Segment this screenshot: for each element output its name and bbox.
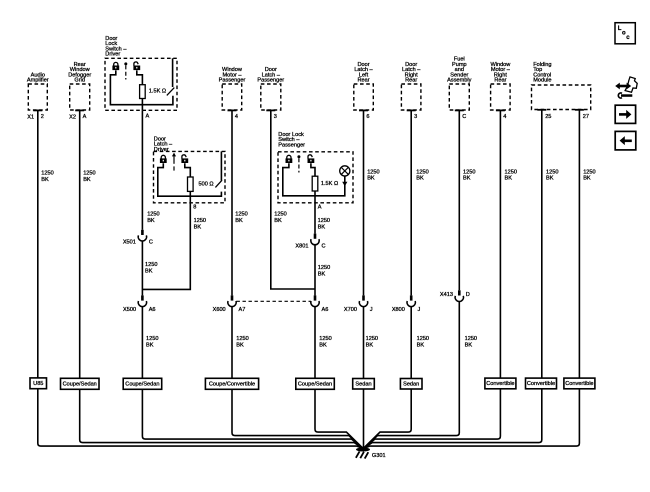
wire label 1250 BK #9 [147, 211, 159, 223]
svg-text:3: 3 [274, 114, 277, 120]
svg-text:Coupe/Sedan: Coupe/Sedan [63, 382, 97, 388]
label box Convertible w11 [564, 378, 595, 389]
wire label 1250 BK #11 [274, 211, 286, 223]
svg-text:1250: 1250 [235, 211, 247, 217]
svg-text:1250: 1250 [465, 336, 477, 342]
svg-text:1250: 1250 [274, 211, 286, 217]
svg-text:X600: X600 [213, 307, 226, 313]
svg-text:1250: 1250 [194, 218, 206, 224]
switch blade door latch driver [215, 151, 222, 187]
wire: window motor passenger down to X600 [231, 110, 233, 295]
wire label 1250 BK #15 [318, 265, 330, 277]
door latch driver box [154, 136, 226, 210]
svg-text:BK: BK [145, 268, 153, 274]
service info arrow-wrench icon [615, 77, 637, 98]
svg-text:1250: 1250 [41, 171, 53, 177]
wire label 1250 BK #12 [194, 218, 206, 230]
connector: audio amplifier [27, 72, 49, 120]
svg-text:1250: 1250 [145, 262, 157, 268]
wire label 1250 BK #1 [41, 171, 53, 183]
wire label 1250 BK #5 [463, 169, 475, 181]
wire label 1250 BK #6 [505, 169, 517, 181]
svg-text:C: C [462, 114, 466, 120]
connector: rear window defogger grid [68, 62, 91, 121]
svg-text:A6: A6 [149, 307, 156, 313]
svg-text:BK: BK [465, 342, 473, 348]
wire label 1250 BK #18 [319, 336, 331, 348]
wire: X600 to Coupe/Convertible to ground [232, 307, 363, 449]
label box Convertible w9 [485, 378, 516, 389]
svg-text:J: J [418, 307, 421, 313]
svg-text:C: C [322, 243, 326, 249]
ground G301 [356, 448, 386, 459]
svg-text:1250: 1250 [146, 336, 158, 342]
svg-text:A: A [83, 114, 87, 120]
actuator dot dashed driver switch [124, 62, 127, 79]
svg-text:BK: BK [546, 176, 554, 182]
wire: X801 to A6 splice [314, 245, 316, 296]
dashed tie line X600 to A6 [237, 300, 311, 302]
wire: door latch passenger branch to junction [271, 110, 315, 289]
wire label 1250 BK #10 [235, 211, 247, 223]
wire: X700 to Sedan to ground [362, 307, 364, 449]
door lock switch passenger box [278, 132, 353, 211]
wire label 1250 BK #17 [236, 336, 248, 348]
svg-text:BK: BK [194, 224, 202, 230]
wire label 1250 BK #13 [318, 218, 330, 230]
lock icon closed door latch driver [160, 155, 167, 163]
svg-text:BK: BK [366, 342, 374, 348]
svg-text:1250: 1250 [546, 169, 558, 175]
wire label 1250 BK #7 [546, 169, 558, 181]
lock icon open door latch driver [181, 155, 188, 163]
svg-text:BK: BK [146, 342, 154, 348]
connector splice X501 pin C [123, 230, 153, 246]
svg-text:X2: X2 [69, 115, 76, 121]
connector splice X500 pin A6 [123, 295, 156, 313]
lock icon open driver switch [133, 62, 140, 70]
svg-text:c: c [626, 35, 630, 41]
svg-text:Coupe/Sedan: Coupe/Sedan [125, 382, 159, 388]
label box Coupe/Sedan w3 [123, 378, 162, 389]
wire: X501 to X500 junction [141, 241, 143, 295]
svg-text:1250: 1250 [463, 169, 475, 175]
wire: window motor right rear to Convertible to ground [363, 110, 500, 448]
svg-text:1250: 1250 [319, 336, 331, 342]
svg-text:Module: Module [533, 78, 551, 84]
svg-text:BK: BK [416, 176, 424, 182]
connector splice X700 pin J [344, 295, 373, 313]
wire: folding top module pin 27 to Convertible to ground [363, 110, 579, 448]
wire: door latch left rear down to X700 [363, 110, 365, 295]
connector splice X413 pin D [440, 290, 470, 301]
svg-text:1250: 1250 [236, 336, 248, 342]
svg-text:Sedan: Sedan [403, 382, 419, 388]
svg-text:6: 6 [366, 114, 369, 120]
svg-text:BK: BK [274, 218, 282, 224]
wire: A6 to Coupe/Sedan to ground [315, 307, 363, 449]
svg-text:500 Ω: 500 Ω [199, 182, 214, 188]
svg-text:1250: 1250 [416, 169, 428, 175]
svg-text:1250: 1250 [318, 265, 330, 271]
connector: door latch passenger pin 3 [257, 67, 284, 120]
svg-text:Amplifier: Amplifier [27, 78, 49, 84]
wire label 1250 BK #4 [416, 169, 428, 181]
svg-text:3: 3 [414, 114, 417, 120]
wire: X800 to Sedan to ground [363, 307, 411, 449]
connector splice A6 passenger [311, 295, 329, 313]
svg-text:G301: G301 [372, 453, 386, 459]
svg-text:1250: 1250 [417, 336, 429, 342]
wire label 1250 BK #3 [367, 169, 379, 181]
label box Coupe/Sedan w2 [61, 378, 100, 389]
svg-text:A: A [318, 205, 322, 211]
indicator lamp passenger switch [340, 166, 350, 186]
svg-text:Passenger: Passenger [257, 78, 284, 84]
right arrow button [615, 105, 635, 123]
svg-text:1.5K Ω: 1.5K Ω [149, 89, 166, 95]
wire: door latch driver branch to junction [142, 203, 190, 290]
svg-text:Passenger: Passenger [278, 143, 305, 149]
svg-text:Passenger: Passenger [219, 78, 246, 84]
wire: folding top module pin 25 to Convertible to ground [363, 110, 542, 448]
svg-text:BK: BK [583, 176, 591, 182]
svg-text:1250: 1250 [583, 169, 595, 175]
label box Convertible w10 [526, 378, 557, 389]
svg-text:BK: BK [417, 342, 425, 348]
svg-text:X800: X800 [392, 307, 405, 313]
wire label 1250 BK #21 [465, 336, 477, 348]
wire: audio amplifier to U85 to ground [38, 110, 363, 448]
lock icon closed passenger switch [286, 155, 293, 163]
wire: X500 to Coupe/Sedan to ground [142, 307, 363, 449]
wire label 1250 BK #20 [417, 336, 429, 348]
switch blade driver [167, 58, 175, 95]
svg-text:U85: U85 [33, 381, 43, 387]
wiring inside passenger switch box [283, 163, 345, 196]
connector: window motor passenger pin 4 [219, 67, 246, 120]
wire: rear window defogger to ground [80, 110, 364, 448]
svg-text:Driver: Driver [154, 147, 169, 153]
label box Sedan w7 [400, 379, 422, 390]
svg-text:1250: 1250 [147, 211, 159, 217]
svg-text:X700: X700 [344, 307, 357, 313]
lock icon closed driver switch [112, 62, 119, 70]
svg-text:27: 27 [583, 114, 589, 120]
svg-text:BK: BK [319, 342, 327, 348]
wire: door lock switch driver pin A down to X501 [141, 110, 143, 230]
svg-text:X501: X501 [123, 239, 136, 245]
svg-text:1250: 1250 [318, 218, 330, 224]
svg-text:A6: A6 [322, 307, 329, 313]
wire: fuel pump sender down to X413 [458, 110, 460, 290]
resistor 1.5K driver switch [137, 70, 166, 110]
svg-text:25: 25 [545, 114, 551, 120]
resistor 1.5K passenger switch [311, 163, 338, 203]
svg-text:BK: BK [505, 176, 513, 182]
svg-text:A: A [146, 114, 150, 120]
svg-text:BK: BK [236, 342, 244, 348]
svg-text:BK: BK [318, 271, 326, 277]
label box Coupe/Convertible [205, 378, 258, 389]
wire label 1250 BK #14 [145, 262, 157, 274]
wire label 1250 BK #16 [146, 336, 158, 348]
svg-text:Rear: Rear [357, 78, 369, 84]
svg-text:Rear: Rear [494, 78, 506, 84]
svg-text:C: C [149, 239, 153, 245]
svg-text:J: J [370, 307, 373, 313]
LOC reference badge [615, 23, 635, 44]
svg-text:X413: X413 [440, 292, 453, 298]
connector: door latch left rear pin 6 [354, 62, 374, 120]
svg-text:BK: BK [463, 176, 471, 182]
wire label 1250 BK #2 [83, 171, 95, 183]
svg-text:1250: 1250 [367, 169, 379, 175]
svg-text:BK: BK [147, 218, 155, 224]
wire: door lock switch passenger pin A down to X801 [314, 203, 316, 234]
svg-text:X801: X801 [295, 243, 308, 249]
svg-text:A7: A7 [239, 307, 246, 313]
svg-text:Coupe/Convertible: Coupe/Convertible [209, 382, 255, 388]
connector: window motor right rear pin 4 [490, 62, 511, 120]
svg-text:BK: BK [367, 176, 375, 182]
svg-text:X1: X1 [27, 115, 34, 121]
svg-text:Convertible: Convertible [486, 381, 514, 387]
svg-text:Assembly: Assembly [447, 78, 471, 84]
svg-text:Rear: Rear [405, 78, 417, 84]
svg-text:Convertible: Convertible [527, 381, 555, 387]
wire label 1250 BK #8 [583, 169, 595, 181]
svg-text:4: 4 [503, 114, 506, 120]
connector splice X600 pin A7 [213, 295, 246, 313]
actuator dot dashed passenger switch [297, 155, 300, 172]
svg-text:BK: BK [83, 177, 91, 183]
wire: X413 to ground [363, 302, 459, 449]
lock icon open passenger switch [308, 155, 315, 163]
svg-text:X500: X500 [123, 307, 136, 313]
wiring inside driver switch box [110, 70, 172, 104]
svg-text:1250: 1250 [505, 169, 517, 175]
svg-text:BK: BK [318, 224, 326, 230]
svg-text:Coupe/Sedan: Coupe/Sedan [298, 382, 332, 388]
svg-text:1.5K Ω: 1.5K Ω [321, 181, 338, 187]
actuator up arrow door latch driver [172, 153, 176, 171]
connector splice X801 pin C [295, 234, 325, 250]
label box U85 [30, 378, 47, 389]
label box Sedan w6 [353, 379, 375, 390]
wire label 1250 BK #19 [366, 336, 378, 348]
connector: door latch right rear pin 3 [401, 62, 421, 120]
svg-text:Sedan: Sedan [355, 382, 371, 388]
svg-text:8: 8 [193, 205, 196, 211]
svg-text:BK: BK [235, 218, 243, 224]
wire: door latch right rear down to X800 [410, 110, 412, 295]
wiring inside door latch driver box [158, 163, 222, 196]
svg-text:4: 4 [235, 114, 238, 120]
label box Coupe/Sedan w5 [296, 378, 335, 389]
svg-text:1250: 1250 [366, 336, 378, 342]
svg-text:1250: 1250 [83, 171, 95, 177]
connector: fuel pump and sender assembly pin C [447, 57, 471, 121]
connector splice X800 pin J [392, 295, 421, 313]
svg-text:Driver: Driver [105, 52, 120, 58]
svg-text:Convertible: Convertible [565, 381, 593, 387]
door lock switch driver box [105, 36, 177, 120]
svg-text:BK: BK [41, 177, 49, 183]
svg-text:Grid: Grid [74, 78, 85, 84]
left arrow button [615, 131, 636, 150]
svg-text:D: D [466, 292, 470, 298]
svg-text:2: 2 [41, 114, 44, 120]
resistor 500 door latch driver [185, 163, 214, 203]
folding top control module box pins 25 27 [532, 62, 591, 120]
